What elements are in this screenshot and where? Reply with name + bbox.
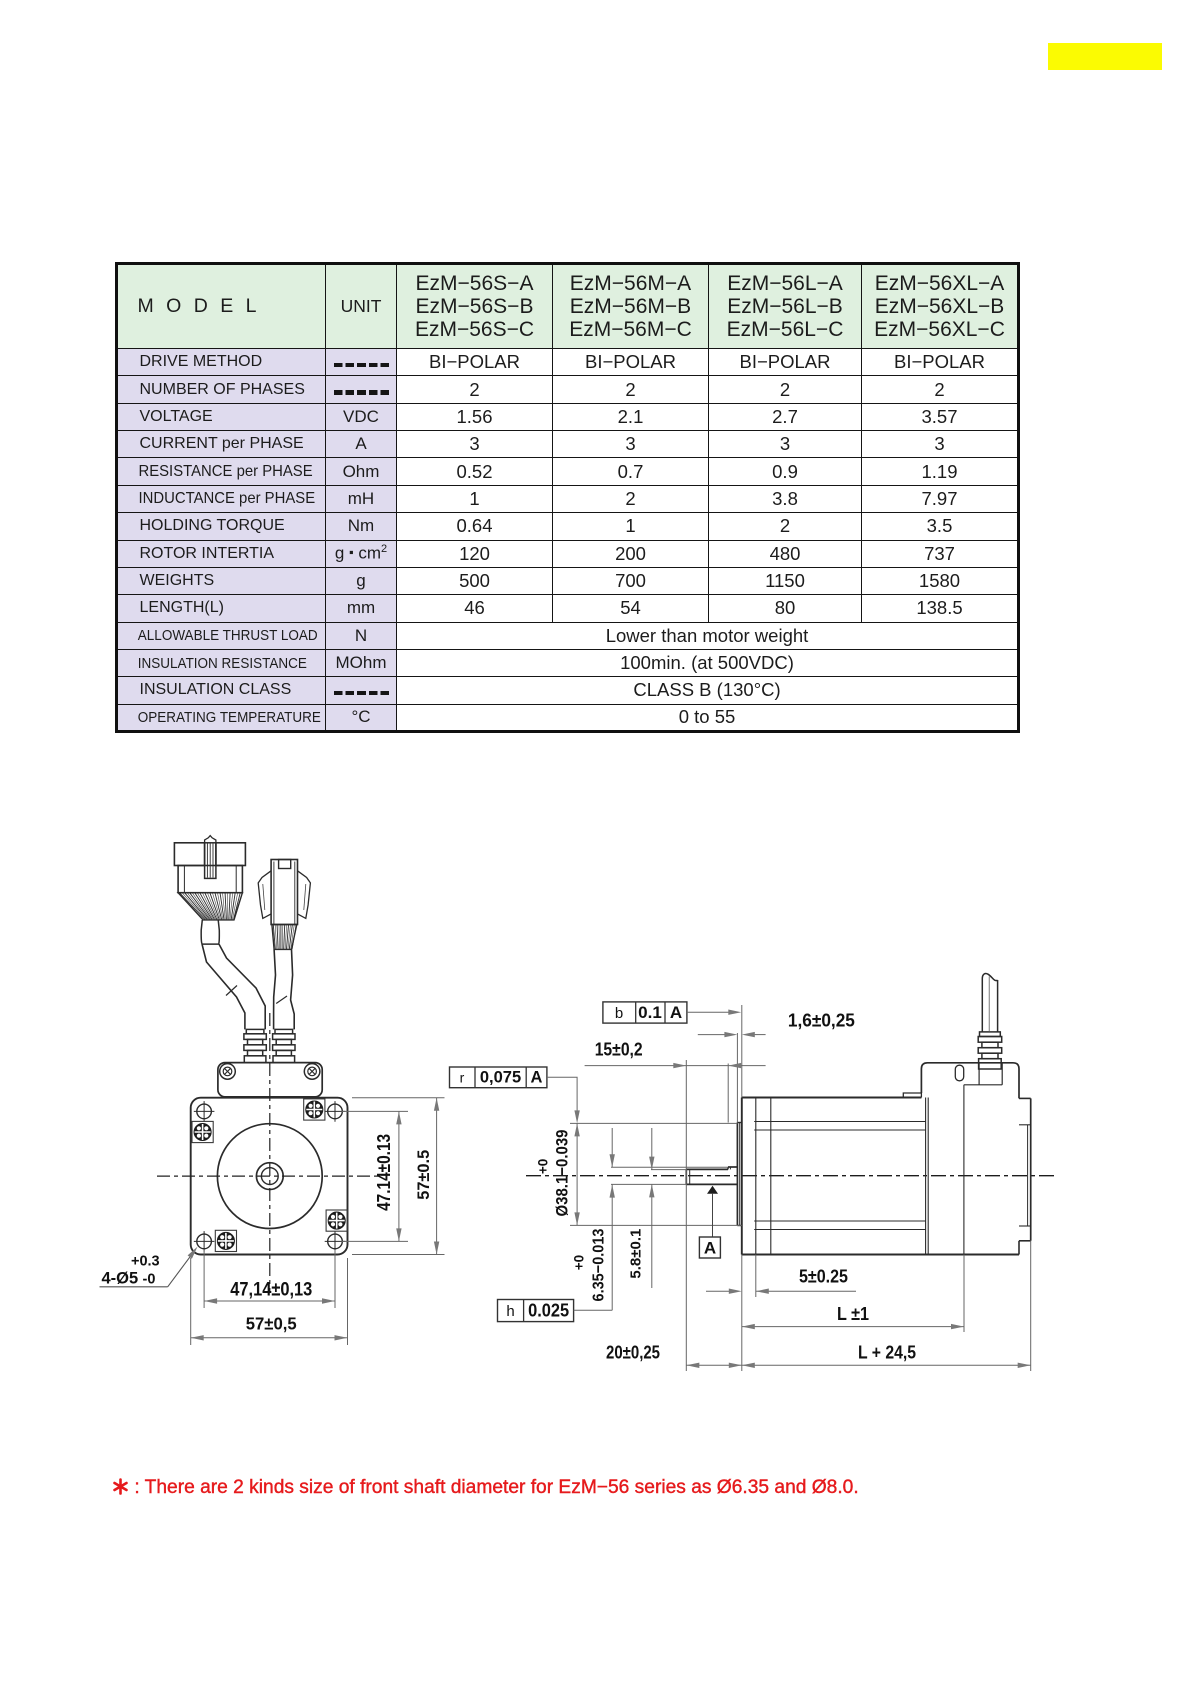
front view: motor square body bbox=[191, 1098, 348, 1255]
svg-text:4-Ø5: 4-Ø5 bbox=[102, 1270, 139, 1288]
dim diam 38.1 bbox=[576, 1123, 578, 1225]
front view: right cable bbox=[274, 949, 276, 1029]
dim 5±0.25 bbox=[706, 1290, 730, 1292]
svg-text:h: h bbox=[506, 1303, 514, 1320]
side view: rear housing block bbox=[903, 1093, 921, 1098]
dim 5.8±0.1 bbox=[651, 1128, 653, 1170]
svg-text:0.025: 0.025 bbox=[528, 1301, 569, 1321]
svg-text:57±0,5: 57±0,5 bbox=[246, 1314, 297, 1334]
side view: shaft with flat bbox=[686, 1168, 728, 1170]
side view: body bottom edge bbox=[742, 1254, 1019, 1256]
front view: housing screws bbox=[220, 1064, 236, 1080]
side view: front cap interior lines bbox=[755, 1098, 757, 1255]
svg-text:A: A bbox=[531, 1069, 543, 1087]
svg-text:L ±1: L ±1 bbox=[837, 1304, 869, 1324]
svg-text:L + 24,5: L + 24,5 bbox=[858, 1343, 916, 1363]
svg-text:57±0.5: 57±0.5 bbox=[414, 1150, 433, 1200]
front view: cable glands (ribbed) bbox=[246, 1029, 264, 1033]
side view: body top edge bbox=[742, 1097, 922, 1099]
feature frame r 0.075 A bbox=[450, 1067, 547, 1088]
front view: shaft circles bbox=[256, 1163, 283, 1190]
front view: right connector wire fan bbox=[272, 925, 297, 950]
front view dim 47.14 horizontal bbox=[204, 1300, 335, 1302]
front view: corner screws (cross circles) bbox=[197, 1104, 212, 1119]
front view dim 57 vertical bbox=[436, 1098, 438, 1255]
feature frame b 0.1 A bbox=[603, 1002, 687, 1023]
side view: housing cable channel + slot bbox=[978, 1063, 980, 1085]
dim 15±0.2 bbox=[585, 1065, 766, 1067]
dim L±1 bbox=[742, 1326, 964, 1328]
side view: pilot boss bbox=[736, 1123, 738, 1226]
side view: lamination edge lines bbox=[754, 1121, 925, 1123]
svg-text:20±0,25: 20±0,25 bbox=[606, 1343, 660, 1363]
front view dim 47.14 vertical bbox=[398, 1111, 400, 1241]
svg-text:15±0,2: 15±0,2 bbox=[595, 1040, 643, 1060]
front view: right connector wings bbox=[258, 871, 271, 919]
svg-text:+0: +0 bbox=[536, 1159, 551, 1174]
svg-text:r: r bbox=[460, 1070, 465, 1086]
svg-text:+0: +0 bbox=[572, 1255, 587, 1270]
specification table bbox=[115, 262, 1021, 733]
feature frame h 0.025 bbox=[498, 1300, 574, 1322]
front view: left connector body bbox=[178, 866, 242, 893]
svg-text:5.8±0.1: 5.8±0.1 bbox=[628, 1229, 645, 1279]
front view: left connector wire fan bbox=[178, 893, 242, 920]
front view: left cable neck bbox=[201, 920, 219, 944]
front view: left connector latch bbox=[205, 836, 216, 843]
side view: rear cable gland (ribbed) bbox=[980, 1032, 1001, 1037]
svg-text:Ø38.1−0.039: Ø38.1−0.039 bbox=[554, 1130, 572, 1217]
side view: rear cable bbox=[981, 979, 983, 1032]
side view: end bell front edges bbox=[925, 1098, 927, 1255]
side view: rear face and steps bbox=[1019, 1097, 1031, 1099]
front view: pilot circle bbox=[217, 1124, 322, 1229]
front view dim 57 horizontal bbox=[191, 1337, 348, 1339]
svg-text:0,075: 0,075 bbox=[480, 1069, 521, 1087]
dim 1.6±0.25 bbox=[698, 1034, 726, 1036]
red footnote bbox=[112, 1477, 859, 1499]
front view: knurled socket screws in square pockets bbox=[192, 1121, 213, 1142]
svg-text:A: A bbox=[704, 1239, 716, 1258]
svg-text:+0.3: +0.3 bbox=[131, 1254, 160, 1270]
svg-text:47.14±0.13: 47.14±0.13 bbox=[374, 1134, 394, 1211]
front view dimension extension lines bbox=[342, 1110, 409, 1112]
front view: right connector body bbox=[271, 860, 297, 925]
svg-text:6.35−0.013: 6.35−0.013 bbox=[591, 1228, 608, 1301]
dim 20±0.25 and L+24.5 bbox=[686, 1364, 1030, 1366]
front view: left cable (bent) bbox=[202, 944, 245, 1029]
datum A symbol bbox=[707, 1186, 718, 1194]
svg-text:5±0.25: 5±0.25 bbox=[799, 1267, 848, 1287]
svg-text:A: A bbox=[670, 1003, 682, 1022]
front view: right connector top notch bbox=[279, 860, 291, 869]
front view: connector housing plate bbox=[218, 1063, 322, 1097]
svg-text:1,6±0,25: 1,6±0,25 bbox=[788, 1011, 855, 1031]
side view: centerline bbox=[526, 1175, 1056, 1177]
svg-text:0.1: 0.1 bbox=[638, 1003, 662, 1022]
svg-text:b: b bbox=[615, 1005, 623, 1022]
side view extension lines bbox=[611, 1166, 728, 1168]
yellow highlight box bbox=[1048, 43, 1162, 70]
dim diam 6.35 bbox=[611, 1128, 613, 1167]
front view: centerlines bbox=[157, 1175, 382, 1177]
svg-text:-0: -0 bbox=[143, 1272, 156, 1288]
front view: left connector cap (two halves) bbox=[174, 843, 204, 866]
side view: flange face bbox=[741, 1098, 743, 1255]
svg-text:47,14±0,13: 47,14±0,13 bbox=[230, 1280, 312, 1301]
